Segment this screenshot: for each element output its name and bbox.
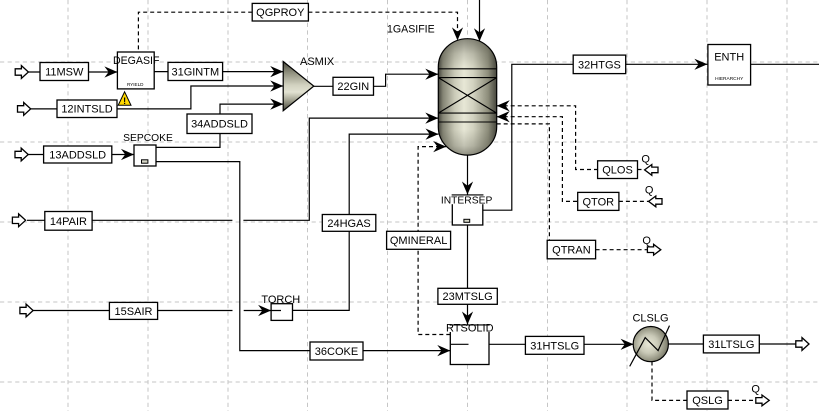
arrowhead into RTSOLID top (462, 312, 473, 325)
svg-text:HIERARCHY: HIERARCHY (715, 76, 744, 82)
stream label QGPROY (252, 3, 308, 21)
svg-text:Q: Q (645, 184, 654, 196)
block ENTH (hierarchy) (708, 45, 751, 86)
heat stream QLOS wire (497, 106, 598, 170)
svg-text:QMINERAL: QMINERAL (390, 235, 447, 247)
svg-text:Q: Q (642, 235, 651, 247)
svg-text:12INTSLD: 12INTSLD (61, 104, 112, 116)
arrowhead ASMIX inlet 2 (270, 80, 283, 91)
stream label QSLG (687, 391, 728, 409)
stream 11MSW wire (28, 71, 118, 73)
arrowhead ASMIX inlet 1 (270, 66, 283, 77)
arrowhead into TORCH (258, 305, 271, 316)
arrowhead QMINERAL into gasifier (433, 141, 446, 152)
stream label 32HTGS (573, 55, 626, 74)
block SEPCOKE (separator) (123, 133, 173, 166)
block RTSOLID (reactor) (446, 322, 494, 364)
stream label QMINERAL (387, 231, 451, 249)
svg-text:INTERSEP: INTERSEP (441, 196, 493, 207)
svg-text:DEGASIF: DEGASIF (113, 55, 160, 67)
svg-text:ASMIX: ASMIX (300, 56, 335, 68)
svg-text:QGPROY: QGPROY (256, 7, 305, 19)
feed arrow 15SAIR (20, 304, 33, 317)
block DEGASIF (RYield reactor) (113, 52, 160, 89)
block TORCH (261, 294, 300, 321)
svg-text:24HGAS: 24HGAS (327, 218, 370, 230)
arrowhead into ENTH (694, 59, 707, 70)
svg-text:!: ! (123, 96, 126, 106)
stream label QTOR (578, 192, 619, 210)
feed arrow 12INTSLD (18, 103, 31, 116)
RTSOLID internal outlet tick (451, 343, 469, 345)
svg-text:Q: Q (751, 384, 760, 396)
feed arrow 11MSW (15, 66, 28, 79)
stream ENTH outlet wire (751, 63, 819, 65)
stream 34ADDSLD wire (SEPCOKE to ASMIX) (156, 104, 283, 147)
svg-text:23MTSLG: 23MTSLG (443, 291, 493, 303)
heat stream QMINERAL wire (RTSOLID to gasifier) (418, 147, 450, 335)
stream 13ADDSLD wire (to SEPCOKE) (28, 154, 134, 156)
svg-text:RTSOLID: RTSOLID (446, 322, 494, 334)
svg-text:14PAIR: 14PAIR (50, 216, 87, 228)
svg-text:32HTGS: 32HTGS (578, 59, 621, 71)
svg-text:36COKE: 36COKE (315, 346, 358, 358)
svg-text:15SAIR: 15SAIR (115, 306, 153, 318)
stream label QTRAN (547, 240, 595, 258)
svg-text:34ADDSLD: 34ADDSLD (191, 119, 248, 131)
stream 15SAIR wire (to TORCH) (33, 310, 233, 312)
arrowhead 36COKE into RTSOLID (437, 345, 450, 356)
stream 31HTSLG wire (RTSOLID to CLSLG) (489, 343, 634, 345)
svg-text:QSLG: QSLG (692, 395, 723, 407)
stream label 24HGAS (322, 215, 376, 232)
stream into gasifier top wire (479, 0, 481, 41)
arrowhead into INTERSEP (462, 182, 473, 195)
arrowhead QLOS at gasifier (pointing left) (497, 100, 510, 111)
arrowhead 14PAIR into gasifier (425, 113, 438, 124)
svg-text:TORCH: TORCH (261, 294, 300, 306)
svg-text:31GINTM: 31GINTM (171, 66, 219, 78)
Q arrow QTRAN (647, 244, 660, 255)
warning triangle near DEGASIF (118, 92, 131, 106)
stream label 23MTSLG (438, 288, 497, 304)
heat stream QSLG wire (CLSLG to QSLG) (652, 362, 687, 401)
arrowhead 24HGAS into gasifier (426, 129, 439, 140)
svg-text:QLOS: QLOS (602, 165, 633, 177)
svg-text:1GASIFIE: 1GASIFIE (387, 24, 435, 36)
block ASMIX (mixer triangle) (283, 56, 335, 111)
stream label 34ADDSLD (187, 114, 252, 134)
stream 22GIN wire (ASMIX to gasifier) (314, 74, 439, 86)
heat stream QTRAN wire (497, 124, 550, 240)
svg-text:31LTSLG: 31LTSLG (708, 339, 754, 351)
stream gasifier bottom to INTERSEP wire (467, 153, 469, 195)
stream 14PAIR wire (to gasifier) (27, 219, 232, 221)
svg-text:SEPCOKE: SEPCOKE (123, 133, 173, 144)
arrowhead into CLSLG (621, 339, 634, 350)
stream 32HTGS wire (INTERSEP to ENTH) (483, 64, 708, 210)
stream label 31HTSLG (525, 336, 584, 354)
feed arrow 13ADDSLD (15, 148, 28, 161)
stream 23MTSLG wire (INTERSEP to RTSOLID) (467, 225, 469, 325)
stream label 36COKE (310, 342, 363, 360)
stream 36COKE wire (SEPCOKE to RTSOLID) (156, 162, 450, 351)
svg-text:31HTSLG: 31HTSLG (530, 340, 579, 352)
heat stream QGPROY right segment (QGPROY to gasifier top) (308, 12, 457, 39)
block INTERSEP (separator) (441, 195, 493, 225)
stream label 31LTSLG (703, 335, 759, 353)
stream label 22GIN (333, 77, 374, 95)
block 1GASIFIE (gasifier vessel) (387, 24, 497, 156)
Q arrow QLOS (645, 165, 658, 176)
svg-text:ENTH: ENTH (714, 51, 744, 63)
stream 12INTSLD wire (to ASMIX) (31, 86, 284, 109)
stream label 11MSW (40, 63, 89, 81)
heat stream QGPROY left segment (QGPROY to DEGASIF) (138, 12, 252, 51)
stream label 15SAIR (109, 302, 157, 319)
arrowhead into DEGASIF (104, 66, 117, 77)
feed arrow 14PAIR (12, 214, 25, 227)
svg-text:RYIELD: RYIELD (127, 82, 144, 87)
arrowhead ASMIX inlet 3 (270, 99, 283, 110)
product arrow 31LTSLG (796, 338, 809, 351)
arrowhead into SEPCOKE (121, 149, 134, 160)
stream label QLOS (598, 161, 638, 179)
stream label 31GINTM (168, 62, 223, 80)
svg-text:QTRAN: QTRAN (552, 244, 591, 256)
Q arrow QSLG (756, 395, 769, 406)
arrowhead QTOR at gasifier (pointing left) (497, 111, 510, 122)
svg-text:CLSLG: CLSLG (632, 312, 668, 324)
svg-text:QTOR: QTOR (583, 196, 615, 208)
Q arrow QTOR (649, 196, 662, 207)
arrowhead QGPROY into gasifier top (452, 27, 463, 40)
arrowhead 22GIN into gasifier (425, 69, 438, 80)
stream 31GINTM wire (DEGASIF to ASMIX) (154, 71, 283, 73)
svg-text:13ADDSLD: 13ADDSLD (49, 149, 106, 161)
stream label 13ADDSLD (44, 146, 112, 163)
arrowhead top stream into gasifier (474, 28, 485, 41)
block CLSLG (heater) (630, 312, 670, 366)
stream label 14PAIR (45, 212, 92, 231)
stream 24HGAS wire (TORCH to gasifier) (293, 134, 439, 310)
svg-text:22GIN: 22GIN (337, 81, 369, 93)
stream 15SAIR inner segment inside TORCH (262, 310, 281, 312)
svg-text:11MSW: 11MSW (45, 66, 84, 78)
heat stream QTOR wire (497, 117, 578, 202)
stream label 12INTSLD (57, 100, 117, 118)
stream 31LTSLG wire (CLSLG to outlet) (668, 343, 796, 345)
svg-text:Q: Q (641, 154, 650, 166)
